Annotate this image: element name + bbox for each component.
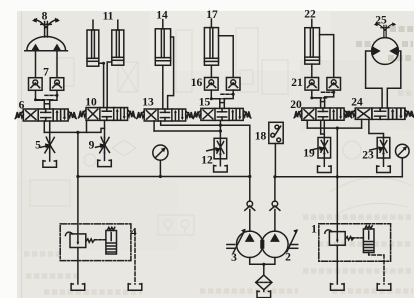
svg-text:15: 15 — [199, 97, 211, 109]
wire 22 rod side to check 21 — [320, 35, 334, 78]
svg-text:20: 20 — [290, 99, 302, 111]
bypass element in block 4 — [106, 227, 117, 254]
wire 13 to 15 upper — [161, 124, 221, 126]
left bus wire — [78, 176, 250, 178]
pilot dash in block 4 — [95, 239, 106, 241]
cylinder 17 — [204, 19, 218, 65]
flow control valve 12 — [207, 138, 227, 172]
wire 17 bottom to check 16 — [210, 65, 212, 77]
svg-text:19: 19 — [303, 148, 315, 160]
junction dot return — [76, 131, 79, 134]
wire 11 to valve 10 — [99, 62, 112, 108]
directional valve 24 — [346, 108, 413, 119]
svg-text:4: 4 — [131, 227, 137, 239]
junction dots left bus — [76, 175, 251, 178]
svg-text:3: 3 — [231, 252, 237, 264]
hydraulic motor 25 — [372, 22, 399, 64]
pilot check valve pair 21 — [305, 78, 341, 91]
svg-text:7: 7 — [43, 67, 49, 79]
directional valve 6 — [15, 109, 76, 121]
wire valve 24 to flow control 23 — [369, 119, 384, 137]
junction dots under valve 15 — [219, 124, 222, 133]
cylinder 22 — [305, 19, 320, 64]
svg-text:14: 14 — [156, 10, 168, 22]
pressure switch 18 — [269, 122, 283, 143]
wire return line under valves 6-10 — [44, 128, 104, 132]
svg-text:16: 16 — [191, 77, 203, 89]
bypass element in block 1 — [363, 226, 374, 253]
svg-text:23: 23 — [362, 150, 374, 162]
wire 16L to valve 15 — [211, 90, 220, 108]
wire valve 20 stub to return — [306, 120, 308, 128]
wire valve 15 down to flow control 12 — [219, 120, 221, 138]
wire riser to right bus — [336, 128, 338, 177]
svg-text:6: 6 — [19, 100, 25, 112]
pump 3 — [227, 229, 263, 258]
wire 17 rod side to check 16 — [219, 36, 234, 78]
arrow into dome from check 7 left — [32, 44, 40, 50]
wire motor 25 to valve 24 — [366, 51, 401, 108]
svg-text:13: 13 — [142, 97, 154, 109]
wire drop to left bus — [77, 132, 79, 176]
pilot dashes 16 — [213, 94, 232, 99]
wire check7 left to dome — [35, 50, 37, 78]
svg-text:2: 2 — [285, 252, 291, 264]
svg-text:24: 24 — [351, 97, 363, 109]
wire 7R to valve 6 — [50, 90, 57, 109]
wire check7 right to dome — [56, 50, 58, 78]
valve block 4 outline — [60, 224, 131, 261]
directional valve 13 — [137, 109, 194, 121]
svg-text:1: 1 — [311, 224, 317, 236]
svg-text:5: 5 — [35, 140, 41, 152]
wire pumps to filter — [250, 258, 275, 276]
svg-text:9: 9 — [89, 140, 95, 152]
check valve pump 3 — [245, 201, 255, 231]
pilot dashes 21 — [314, 92, 333, 98]
junction dots 16 — [210, 93, 235, 101]
relief valve in block 1 — [325, 230, 354, 245]
arrow into dome from check 7 right — [53, 44, 61, 50]
svg-text:8: 8 — [42, 11, 48, 23]
wire valve 6 drain stubs — [44, 121, 49, 132]
wire 14 bottom to valve 13 — [162, 65, 164, 109]
pilot check valve pair 16 — [205, 78, 241, 91]
junction dots 7 — [34, 94, 59, 101]
suction filter — [256, 275, 272, 298]
cylinder 11 right — [112, 20, 124, 65]
cylinder 11 left — [87, 20, 99, 66]
wire supply riser pump 3 — [220, 125, 249, 176]
wire valve 13 stub A — [153, 121, 155, 131]
wire 16R to valve 15 — [224, 90, 233, 108]
wire 7L to valve 6 — [36, 90, 45, 109]
svg-text:22: 22 — [304, 9, 316, 21]
wire 21L to valve 20 — [312, 90, 321, 108]
drain dash from block 4 — [134, 232, 136, 285]
wire valve 13 stub B — [160, 121, 162, 125]
relief valve in block 4 — [65, 232, 94, 247]
tank below block 1 right — [377, 284, 391, 291]
wire relief 1 to tank — [336, 245, 338, 284]
throttle valve 5 — [41, 132, 57, 167]
pilot dash in block 1 — [352, 237, 363, 239]
svg-text:11: 11 — [103, 11, 114, 23]
wire valve 10 left stub — [86, 120, 88, 132]
junction dot 11 — [102, 62, 105, 65]
wire return under valves 20-24 — [307, 127, 361, 129]
svg-text:25: 25 — [375, 15, 387, 27]
pressure gauge left — [153, 145, 168, 177]
check valve pump 2 — [270, 201, 280, 231]
pump coupling — [261, 241, 264, 249]
faint bleed-through artifacts — [30, 28, 412, 235]
svg-text:18: 18 — [255, 131, 267, 143]
svg-text:21: 21 — [291, 77, 303, 89]
pump 2 — [262, 229, 298, 258]
tank below block 4 left — [71, 284, 85, 291]
wire 22 bottom to check 21 — [311, 64, 313, 77]
pressure gauge right — [396, 144, 410, 177]
wire 18 to right bus — [274, 144, 276, 177]
junction dots right bus — [273, 175, 339, 178]
wire valve 10 to throttle 9 — [104, 120, 106, 138]
svg-text:17: 17 — [206, 9, 218, 21]
tank below block 1 left — [331, 284, 345, 291]
flow control valve 23 — [370, 138, 391, 173]
junction dot suction — [262, 263, 265, 266]
pilot dashes 7 — [37, 95, 56, 99]
wire valve 20 to flow control 19 — [321, 120, 325, 137]
junction dots 21 — [310, 91, 335, 100]
wire main drop into block 1 — [336, 177, 338, 232]
svg-text:12: 12 — [201, 155, 213, 167]
drain dash from block 1 — [369, 253, 384, 285]
wire valve 24 stub left — [361, 119, 363, 128]
svg-text:10: 10 — [85, 97, 97, 109]
wire pump 2 riser lower — [274, 177, 276, 201]
flow control valve 19 — [311, 138, 332, 173]
throttle valve 9 — [96, 137, 112, 166]
directional valve 20 — [294, 108, 352, 120]
wire pump 3 riser lower — [249, 177, 251, 202]
cylinder 14 — [155, 20, 170, 66]
right bus wire — [275, 176, 402, 178]
directional valve 15 — [193, 108, 251, 120]
tank below block 4 right — [128, 284, 142, 291]
wire 21R to valve 20 — [325, 90, 334, 108]
junction dot riser right — [336, 127, 339, 130]
fan/breather 8 dome — [25, 18, 68, 51]
pilot check valve pair 7 — [29, 78, 64, 91]
wire 14 rod side to valve 13 — [168, 37, 174, 109]
wire relief 4 to tank — [77, 248, 79, 285]
directional valve 10 — [78, 108, 135, 121]
wire 13 to 15 lower — [154, 130, 220, 132]
wire main drop into block 4 — [77, 177, 79, 234]
valve block 1 outline — [319, 224, 391, 261]
